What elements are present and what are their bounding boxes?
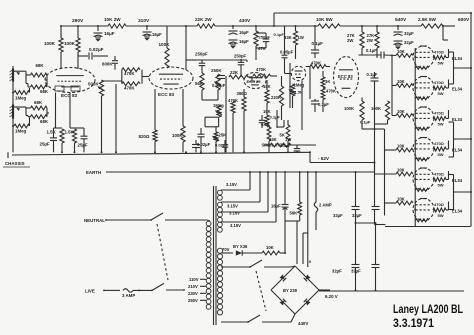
node EL34-1 label — [452, 56, 463, 61]
node SIMULATOR — [262, 143, 286, 148]
resistor 10K grid EL34-4 — [385, 144, 414, 152]
capacitor 0.02uF tone b — [215, 140, 228, 152]
resistor 10K 2W — [104, 17, 126, 28]
wire cathode bus EL34 — [385, 48, 471, 227]
tube V4 oscillator ECC 83 — [291, 66, 305, 80]
fuse 3 AMP — [122, 289, 152, 298]
resistor 10K bias — [262, 245, 285, 255]
svg-text:70V: 70V — [222, 247, 230, 252]
capacitor 32uF reservoir a2 — [332, 265, 360, 274]
svg-text:430V: 430V — [239, 18, 251, 24]
resistor grid stopper EL34-4 — [416, 158, 429, 161]
node LIVE — [85, 289, 120, 294]
resistor 10K grid EL34-2 — [392, 79, 413, 87]
capacitor 0.1uF small label — [274, 32, 285, 37]
resistor 6.5K — [261, 122, 271, 152]
resistor 1Meg ch1 — [14, 88, 30, 101]
resistor 27K 2W b — [367, 26, 380, 58]
svg-text:5W: 5W — [438, 152, 444, 157]
resistor 470R 5W cathode EL34-3 — [433, 110, 449, 127]
svg-text:32µF: 32µF — [333, 213, 343, 218]
input jack J2 — [10, 105, 14, 119]
capacitor 16uF decoupling 430V a — [229, 26, 250, 35]
svg-text:3.15V: 3.15V — [227, 204, 238, 209]
node 290V — [72, 18, 84, 24]
resistor 10K grid EL34-1 — [396, 49, 413, 57]
fuse 2 AMP — [314, 172, 332, 230]
svg-text:110V: 110V — [189, 277, 199, 282]
node 310V — [138, 18, 150, 24]
node 540V — [395, 17, 407, 23]
svg-text:470Ω: 470Ω — [434, 111, 445, 116]
svg-text:230V: 230V — [188, 291, 198, 296]
svg-text:33K: 33K — [284, 35, 292, 40]
resistor 33K 1W plate osc — [284, 26, 304, 59]
resistor 1.5K cathode V1b — [65, 93, 85, 153]
svg-text:470Ω: 470Ω — [434, 202, 445, 207]
resistor 470K mixer 2 — [122, 82, 140, 91]
resistor 10K grid EL34-5 — [375, 168, 414, 176]
svg-text:10K: 10K — [397, 168, 405, 173]
svg-text:16µF: 16µF — [271, 204, 281, 209]
potentiometer 500K volume — [88, 80, 122, 152]
capacitor 0.1uF osc — [311, 26, 323, 58]
node EL34-5 label — [452, 178, 463, 183]
svg-text:100K: 100K — [64, 41, 76, 46]
resistor 100K plate V2 — [159, 26, 171, 68]
tube EL34-6 — [413, 199, 434, 221]
svg-text:32µF: 32µF — [351, 269, 361, 274]
transformer T1 heater winding 3 — [218, 172, 269, 222]
node title date 3.3.1971 — [393, 316, 434, 330]
wire grid ch2 — [13, 107, 31, 117]
resistor grid stopper EL34-2 — [416, 97, 429, 100]
svg-text:470K: 470K — [124, 86, 135, 91]
wire osc drops — [302, 67, 310, 131]
svg-text:Laney LA200 BL: Laney LA200 BL — [393, 302, 463, 316]
svg-text:3.15V: 3.15V — [229, 211, 240, 216]
capacitor 0.04uF — [212, 76, 226, 89]
node 250uF label — [195, 52, 208, 57]
svg-text:33K: 33K — [269, 137, 277, 142]
svg-text:3.15V: 3.15V — [226, 182, 237, 187]
resistor 470R 5W cathode EL34-2 — [433, 80, 449, 97]
svg-text:1.5K: 1.5K — [65, 130, 75, 135]
svg-text:0.02µF: 0.02µF — [197, 142, 211, 147]
resistor 5K — [280, 120, 290, 152]
wire volume drop — [115, 84, 117, 152]
transformer T1 core — [214, 186, 217, 325]
wire grid rail b — [375, 129, 385, 216]
capacitor 0.02uF coupling V1b — [78, 47, 108, 60]
svg-text:NEUTRAL: NEUTRAL — [84, 218, 105, 223]
node 600K label — [102, 62, 113, 67]
transformer T1 HT winding — [217, 248, 222, 315]
svg-text:0.1µF: 0.1µF — [274, 32, 285, 37]
resistor 1K osc — [321, 71, 330, 88]
svg-text:440V: 440V — [298, 321, 308, 326]
svg-text:10K: 10K — [397, 79, 405, 84]
svg-text:22K 2W: 22K 2W — [195, 17, 212, 22]
svg-text:250K: 250K — [211, 68, 222, 73]
ground chassis symbol — [7, 152, 9, 158]
svg-text:0.02µF: 0.02µF — [89, 47, 104, 52]
svg-text:CHASSIS: CHASSIS — [5, 161, 25, 166]
svg-text:32µF: 32µF — [404, 40, 414, 45]
svg-text:32µF: 32µF — [352, 213, 362, 218]
svg-text:32µF: 32µF — [404, 31, 414, 36]
resistor 470R 5W cathode EL34-5 — [433, 171, 449, 188]
svg-text:0.1µF: 0.1µF — [318, 102, 329, 107]
svg-text:16µF: 16µF — [104, 31, 115, 36]
resistor 10K sim — [263, 103, 271, 127]
svg-text:5W: 5W — [438, 91, 444, 96]
resistor grid stopper EL34-1 — [416, 66, 429, 69]
tube EL34-1 — [413, 46, 434, 68]
node 600V — [458, 17, 470, 23]
switch HT pole upper — [221, 260, 295, 268]
resistor 10K grid EL34-6 — [385, 197, 414, 205]
wire grid rail a — [375, 101, 386, 225]
svg-text:68K: 68K — [34, 100, 43, 105]
node EL34-2 label — [452, 87, 463, 92]
svg-text:0.1µF: 0.1µF — [270, 115, 281, 120]
capacitor coupling 600K node — [112, 56, 118, 70]
wire tone mesh — [186, 60, 290, 152]
svg-text:LIVE: LIVE — [85, 289, 95, 294]
switch mains pole A — [150, 213, 210, 221]
svg-text:470K: 470K — [326, 89, 336, 94]
svg-text:3.3.1971: 3.3.1971 — [393, 316, 434, 330]
wire screen feed — [443, 26, 448, 40]
resistor 470K top — [253, 67, 277, 78]
svg-text:56K: 56K — [290, 211, 298, 216]
svg-text:470Ω: 470Ω — [434, 50, 445, 55]
capacitor 16uF decoupling 310V — [143, 26, 163, 40]
resistor 25K — [213, 127, 226, 153]
tube V1 ECC 83 — [45, 68, 95, 99]
svg-text:1Meg: 1Meg — [15, 96, 27, 101]
tube V2 ECC 83 — [149, 67, 193, 97]
svg-text:2W: 2W — [367, 38, 373, 43]
resistor 100K plate V1a — [44, 26, 63, 69]
svg-text:1.5K: 1.5K — [47, 130, 57, 135]
wire anode bracket pair 2 — [449, 122, 472, 157]
svg-text:EARTH: EARTH — [86, 170, 101, 175]
resistor 68K ch1 b — [31, 75, 49, 94]
wire reservoir column a — [355, 172, 357, 291]
svg-text:EL34: EL34 — [452, 87, 463, 92]
resistor 470R 5W cathode EL34-4 — [433, 141, 449, 158]
svg-text:16µF: 16µF — [239, 39, 249, 44]
wire bias riser — [284, 172, 286, 253]
node title Laney LA200 BL — [393, 302, 463, 316]
svg-text:ECC 83: ECC 83 — [338, 74, 353, 79]
transformer T1 heater winding 1 — [218, 172, 251, 200]
resistor 1.5K cathode V1a — [47, 93, 65, 153]
svg-text:32µF: 32µF — [332, 269, 342, 274]
resistor 820R cathode V2 — [139, 89, 158, 152]
switch HT pole lower — [221, 314, 308, 326]
svg-text:290V: 290V — [72, 18, 84, 24]
capacitor 0.1uF to PI — [311, 99, 329, 112]
capacitor 0.1uF sim — [259, 115, 281, 129]
transformer T1 heater winding 4 — [218, 172, 277, 232]
resistor 220K — [271, 76, 284, 120]
capacitor 16uF decoupling 430V b — [229, 39, 250, 48]
wire grid rail c — [391, 56, 393, 116]
resistor grid stopper EL34-6 — [416, 219, 429, 222]
resistor grid stopper EL34-5 — [416, 188, 429, 191]
svg-text:68K: 68K — [36, 63, 45, 68]
capacitor 0.02uF to ground — [192, 140, 200, 152]
svg-text:6.20 V: 6.20 V — [325, 294, 338, 299]
capacitor 16uF bias — [271, 204, 289, 210]
svg-text:10K: 10K — [266, 245, 274, 250]
rectifier bridge BY 238 — [271, 259, 319, 314]
svg-text:0.1µF: 0.1µF — [366, 48, 377, 53]
wire tone loop — [205, 117, 219, 127]
resistor 27K 2W a — [347, 26, 364, 55]
switch mains pole B — [151, 283, 185, 291]
wire switch link dashed — [157, 224, 168, 280]
wire grid ch1 — [13, 71, 31, 87]
svg-text:0.1µF: 0.1µF — [367, 72, 378, 77]
resistor grid stopper EL34-3 — [416, 127, 429, 130]
capacitor 16uF decoupling — [94, 26, 115, 41]
tube EL34-2 — [413, 77, 434, 99]
svg-text:BY X36: BY X36 — [233, 244, 248, 249]
resistor 68K ch2 b — [31, 108, 50, 124]
svg-text:600K: 600K — [102, 62, 113, 67]
svg-text:1Meg: 1Meg — [15, 129, 27, 134]
resistor 100K tail b — [360, 101, 390, 125]
svg-text:16µF: 16µF — [152, 32, 162, 37]
wire main ground bus — [12, 152, 310, 155]
resistor 56K — [195, 60, 205, 100]
capacitor 250pF bright — [234, 54, 247, 78]
svg-text:100K: 100K — [172, 133, 183, 138]
svg-text:250V: 250V — [188, 298, 198, 303]
svg-text:0.04µF: 0.04µF — [212, 83, 226, 88]
svg-text:0.1µF: 0.1µF — [360, 120, 371, 125]
svg-text:470K: 470K — [256, 67, 266, 72]
transformer T1 primary — [206, 221, 211, 309]
capacitor 0.1uF lower — [281, 143, 301, 153]
resistor 470K osc b — [321, 88, 336, 112]
resistor 100K tail a — [344, 98, 375, 130]
resistor 1Meg ch2 — [14, 118, 30, 134]
svg-text:0.1µF: 0.1µF — [312, 41, 324, 46]
capacitor 32uF reservoir b2 — [351, 265, 380, 274]
svg-text:ECC 83: ECC 83 — [61, 93, 78, 98]
svg-text:10K: 10K — [397, 49, 405, 54]
resistor 470R 5W cathode EL34-6 — [433, 202, 449, 219]
wire HT rail — [61, 25, 455, 27]
svg-text:100K: 100K — [371, 106, 381, 111]
node 620V — [319, 290, 338, 299]
resistor 10K V3 plate — [263, 80, 271, 103]
svg-text:2W: 2W — [347, 38, 353, 43]
node EL34-6 label — [452, 209, 463, 214]
wire input ground bus — [12, 66, 14, 152]
svg-text:3.15V: 3.15V — [230, 223, 241, 228]
resistor 22K 2W — [195, 17, 215, 28]
svg-text:0.1µF: 0.1µF — [281, 143, 292, 148]
diode BY X36 — [233, 244, 262, 256]
svg-text:470Ω: 470Ω — [434, 172, 445, 177]
node EL34-4 label — [452, 148, 463, 153]
svg-text:470Ω: 470Ω — [434, 80, 445, 85]
wire bottom DC line — [319, 290, 464, 292]
svg-text:2 AMP: 2 AMP — [319, 203, 332, 208]
node mains taps — [188, 277, 206, 303]
resistor 470K — [228, 98, 238, 120]
resistor 33K 1W lower — [264, 137, 316, 147]
svg-text:210V: 210V — [188, 284, 198, 289]
svg-text:3 AMP: 3 AMP — [122, 293, 135, 298]
svg-text:2.5K 5W: 2.5K 5W — [418, 17, 437, 22]
tube EL34-4 — [413, 138, 434, 160]
svg-text:820Ω: 820Ω — [139, 134, 150, 139]
resistor 100K plate V1b — [64, 26, 80, 69]
wire reservoir tie — [356, 222, 376, 224]
capacitor 32uF reservoir a1 — [333, 207, 360, 219]
capacitor 0.02uF sim — [197, 128, 211, 152]
capacitor 25uF bypass V1b — [78, 128, 88, 152]
svg-text:1K: 1K — [325, 79, 330, 84]
tube V3 ECC 83 — [244, 73, 266, 89]
svg-text:5W: 5W — [438, 61, 444, 66]
svg-text:ECC 83: ECC 83 — [247, 79, 262, 84]
svg-text:10K 2W: 10K 2W — [104, 17, 121, 22]
svg-text:540V: 540V — [395, 17, 407, 23]
svg-text:56K: 56K — [195, 81, 204, 86]
resistor 10K 5W — [316, 17, 340, 28]
svg-text:1W: 1W — [298, 35, 304, 40]
node EL34-3 label — [452, 117, 463, 122]
wire reservoir column b — [375, 225, 377, 291]
capacitor 0.1uF coupling lower — [367, 72, 379, 101]
node 430V — [239, 18, 251, 24]
potentiometer 1Meg speed — [290, 83, 305, 109]
tube V5 phase inverter ECC 83 — [334, 57, 359, 98]
capacitor 0.05uF osc — [280, 26, 294, 74]
capacitor 32uF reservoir b1 — [352, 207, 380, 219]
tube EL34-5 — [413, 168, 434, 190]
svg-text:10K: 10K — [397, 109, 405, 114]
wire HT switch link — [256, 271, 266, 311]
wire anode bracket pair 1 — [449, 52, 472, 84]
input jack J1 — [10, 69, 14, 82]
svg-text:ECC 83: ECC 83 — [158, 92, 175, 97]
svg-text:10K 5W: 10K 5W — [316, 17, 333, 22]
resistor 68K ch1 a — [31, 63, 48, 77]
resistor 2.5K 5W — [418, 17, 443, 28]
svg-text:470Ω: 470Ω — [434, 141, 445, 146]
svg-text:25µF: 25µF — [40, 142, 50, 147]
svg-text:250pF: 250pF — [195, 52, 208, 57]
wire top 600V line — [274, 13, 471, 227]
wire rectifier risers — [297, 221, 308, 264]
svg-text:250pF: 250pF — [234, 54, 247, 59]
svg-text:600V: 600V — [458, 17, 470, 23]
svg-text:EL34: EL34 — [452, 117, 463, 122]
potentiometer 1Meg — [213, 103, 224, 117]
svg-text:- 52V: - 52V — [318, 156, 330, 161]
svg-text:500K: 500K — [88, 82, 99, 87]
svg-text:5W: 5W — [438, 213, 444, 218]
svg-text:390Ω: 390Ω — [237, 91, 248, 96]
transformer T1 heater winding 2 — [218, 172, 261, 212]
resistor 470R 5W cathode EL34-1 — [433, 49, 449, 66]
capacitor 32uF HT b — [394, 40, 415, 49]
resistor 470K osc top — [306, 61, 330, 69]
svg-text:22K: 22K — [230, 70, 239, 75]
node EARTH — [86, 170, 375, 175]
node CHASSIS label — [3, 161, 30, 167]
svg-text:25µF: 25µF — [78, 143, 88, 148]
svg-text:5W: 5W — [438, 183, 444, 188]
svg-text:BY 238: BY 238 — [283, 288, 298, 293]
resistor 22K — [229, 70, 252, 79]
svg-text:470K: 470K — [124, 71, 135, 76]
svg-text:0.05µF: 0.05µF — [280, 50, 294, 55]
resistor 56K bias — [285, 172, 302, 221]
node NEUTRAL — [84, 218, 151, 223]
svg-text:310V: 310V — [138, 18, 150, 24]
resistor 47K dropper — [254, 26, 266, 60]
wire HT riser — [307, 172, 309, 267]
potentiometer 250K treble — [211, 68, 222, 90]
node -52V line — [310, 152, 375, 172]
capacitor 250uF bypass — [256, 33, 270, 48]
svg-text:1W: 1W — [285, 137, 291, 142]
svg-text:25K: 25K — [219, 133, 227, 138]
capacitor 0.1uF coupling upper — [359, 48, 397, 59]
svg-text:16µF: 16µF — [239, 30, 249, 35]
resistor 100K cathode network — [172, 89, 185, 152]
wire anode bracket pair 3 — [449, 175, 472, 210]
resistor 68K ch2 a — [31, 100, 48, 110]
tube EL34-3 — [413, 107, 434, 129]
capacitor 25uF bypass V1a — [40, 128, 58, 152]
wire mixer verticals — [122, 70, 149, 84]
svg-text:100K: 100K — [344, 106, 354, 111]
node 70V tap — [222, 247, 233, 253]
svg-text:68K: 68K — [40, 119, 49, 124]
svg-text:5W: 5W — [438, 122, 444, 127]
svg-text:10K: 10K — [397, 144, 405, 149]
resistor 10K grid EL34-3 — [392, 109, 413, 117]
svg-text:100K: 100K — [44, 41, 56, 46]
resistor 390R cathode V3 — [237, 89, 248, 152]
svg-text:68K: 68K — [40, 89, 49, 94]
wire V2 plate b — [185, 26, 187, 70]
svg-text:10K: 10K — [397, 197, 405, 202]
capacitor 32uF HT a — [394, 26, 415, 36]
resistor 470K mixer 1 — [122, 68, 140, 76]
svg-text:100K: 100K — [159, 42, 171, 47]
